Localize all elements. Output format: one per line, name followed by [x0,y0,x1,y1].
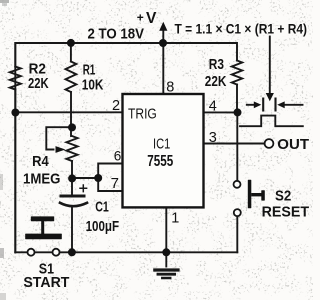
svg-text:R3: R3 [209,56,224,73]
svg-text:7555: 7555 [147,153,173,170]
svg-text:2 TO 18V: 2 TO 18V [88,26,145,42]
svg-text:OUT: OUT [277,136,309,153]
svg-text:START: START [23,274,69,291]
svg-text:2: 2 [112,98,120,114]
svg-text:TRIG: TRIG [128,106,157,123]
svg-text:1MEG: 1MEG [23,171,60,188]
svg-text:RESET: RESET [262,204,310,221]
svg-text:R4: R4 [32,153,49,170]
svg-text:S2: S2 [275,188,291,205]
svg-text:7: 7 [111,175,119,192]
svg-text:6: 6 [114,148,122,163]
svg-text:T = 1.1 × C1 × (R1 + R4): T = 1.1 × C1 × (R1 + R4) [175,21,308,37]
svg-text:4: 4 [209,98,217,114]
svg-text:3: 3 [209,130,217,146]
svg-text:22K: 22K [28,75,49,92]
svg-text:1: 1 [171,211,179,227]
svg-text:22K: 22K [205,73,227,90]
svg-text:8: 8 [166,79,174,95]
svg-text:100μF: 100μF [86,218,120,235]
svg-text:+: + [137,10,144,24]
svg-text:10K: 10K [82,77,104,94]
svg-text:C1: C1 [95,199,109,216]
svg-text:V: V [146,10,157,27]
svg-text:IC1: IC1 [153,136,170,153]
